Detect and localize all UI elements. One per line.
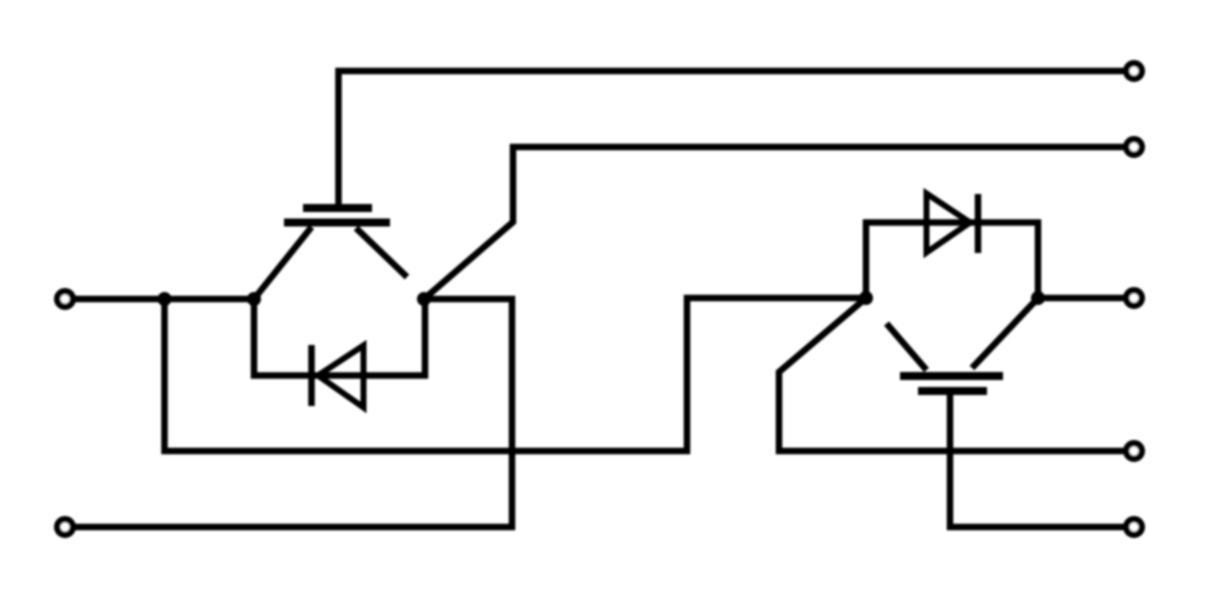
wire right node to terminal C2: [1038, 295, 1134, 302]
node terminal right C2: [1126, 290, 1142, 306]
diode D2 triangle: [927, 194, 971, 253]
wire emitter slant Q2: [972, 298, 1038, 368]
junction dot on left rail at auxiliary link: [158, 292, 172, 306]
node terminal right aux: [1126, 443, 1142, 459]
wire diode D2 loop: node up, across top of D2, down to right node: [866, 223, 1038, 299]
transistor Q2 channel bar: [900, 372, 1003, 380]
junction dot at emitter node E of Q1: [247, 292, 261, 306]
diode D1 triangle: [318, 346, 364, 408]
node terminal right G1: [1126, 63, 1142, 79]
node terminal left E2: [57, 519, 73, 535]
wire gate lead G2: from gate bar down and across bottom to terminal: [950, 394, 1134, 527]
wire collector C1: node diagonal up, vertical, across to terminal: [424, 147, 1134, 299]
wire main left rail: terminal E1 to emitter node: [65, 296, 254, 303]
junction dot at node B of Q1: [417, 292, 431, 306]
diode D1 cathode bar: [308, 345, 315, 406]
wire diode D1 loop: node down, across, up to node B: [254, 299, 425, 376]
wire open slant Q1: [356, 228, 407, 277]
wire open slant Q2: [887, 324, 927, 371]
wire node B to corner, down, and across bottom to terminal E2: [65, 299, 512, 527]
junction dot at right node of Q2: [1031, 291, 1045, 305]
transistor Q2 gate bar: [918, 387, 987, 395]
wire auxiliary emitter link: junction down, across bottom, up to right node: [165, 298, 867, 451]
node terminal left E1: [57, 291, 73, 307]
transistor Q1 channel bar: [284, 219, 390, 227]
diode D2 cathode bar: [975, 194, 982, 253]
transistor Q1 gate bar: [303, 204, 372, 212]
junction dot at left node of Q2: [859, 291, 873, 305]
wire collector link Q2: node diagonal down, vertical, across to terminal: [779, 298, 1134, 451]
wire gate lead G1: from gate bar up and across top to terminal: [339, 71, 1135, 204]
node terminal right G2: [1126, 519, 1142, 535]
wire emitter slant Q1: [254, 227, 312, 299]
node terminal right C1: [1126, 139, 1142, 155]
